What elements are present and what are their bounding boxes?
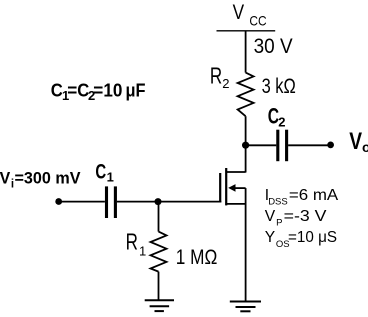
svg-text:=-3 V: =-3 V xyxy=(284,208,328,225)
svg-text:=: = xyxy=(93,80,103,101)
svg-text:C: C xyxy=(95,160,106,183)
svg-text:2: 2 xyxy=(222,76,229,91)
svg-text:1: 1 xyxy=(139,244,146,259)
svg-text:3 kΩ: 3 kΩ xyxy=(262,74,296,98)
svg-text:=10 μS: =10 μS xyxy=(288,229,337,246)
svg-text:V: V xyxy=(265,208,276,225)
svg-text:V: V xyxy=(233,0,245,24)
svg-text:30 V: 30 V xyxy=(254,35,293,58)
svg-text:V: V xyxy=(349,128,362,155)
svg-text:=6 mA: =6 mA xyxy=(289,187,339,204)
svg-text:R: R xyxy=(126,228,138,254)
svg-text:DSS: DSS xyxy=(268,197,288,208)
svg-text:2: 2 xyxy=(278,115,285,130)
svg-text:R: R xyxy=(210,62,222,88)
svg-text:μF: μF xyxy=(126,80,146,101)
svg-text:Y: Y xyxy=(265,229,276,246)
svg-text:=: = xyxy=(67,80,77,101)
svg-text:P: P xyxy=(276,217,282,228)
svg-text:o: o xyxy=(362,140,368,155)
svg-text:CC: CC xyxy=(249,13,266,28)
svg-text:10: 10 xyxy=(103,80,122,101)
svg-text:V: V xyxy=(0,169,10,187)
svg-text:1: 1 xyxy=(107,170,114,185)
svg-text:=300 mV: =300 mV xyxy=(15,169,81,187)
svg-text:1 MΩ: 1 MΩ xyxy=(176,246,218,269)
